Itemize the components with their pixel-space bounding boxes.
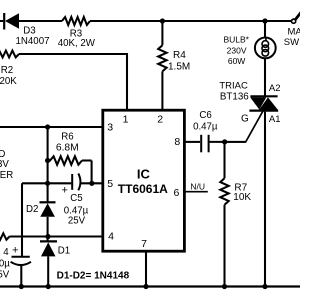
svg-text:1N4007: 1N4007: [16, 36, 50, 47]
svg-text:0µ: 0µ: [0, 259, 10, 270]
svg-text:R6: R6: [61, 132, 73, 143]
svg-text:A1: A1: [269, 114, 281, 125]
svg-text:1: 1: [123, 114, 129, 126]
svg-text:5V: 5V: [0, 270, 10, 281]
svg-text:R2: R2: [1, 65, 13, 76]
svg-text:5: 5: [107, 178, 113, 190]
svg-text:BULB*: BULB*: [223, 35, 249, 45]
svg-text:G: G: [241, 114, 249, 125]
svg-text:20K: 20K: [0, 76, 17, 87]
svg-text:+: +: [12, 245, 18, 257]
svg-text:6: 6: [173, 187, 179, 199]
svg-text:IC: IC: [137, 166, 151, 181]
svg-text:C6: C6: [199, 110, 211, 121]
svg-text:3V: 3V: [0, 159, 9, 170]
svg-text:8: 8: [174, 136, 180, 148]
svg-text:+: +: [62, 185, 68, 197]
svg-text:TRIAC: TRIAC: [219, 81, 248, 92]
svg-text:D1-D2= 1N4148: D1-D2= 1N4148: [57, 271, 130, 282]
svg-text:R4: R4: [173, 50, 186, 61]
svg-text:D2: D2: [26, 204, 38, 215]
svg-text:BT136: BT136: [220, 92, 249, 103]
svg-text:4: 4: [3, 247, 9, 258]
svg-text:60W: 60W: [228, 56, 245, 66]
svg-text:6.8M: 6.8M: [56, 143, 79, 154]
svg-text:D3: D3: [23, 26, 35, 37]
svg-text:40K, 2W: 40K, 2W: [58, 38, 96, 49]
svg-text:A2: A2: [269, 83, 281, 94]
svg-text:1.5M: 1.5M: [168, 62, 190, 73]
svg-text:ER: ER: [0, 170, 13, 181]
svg-text:D1: D1: [58, 246, 70, 257]
svg-text:TT6061A: TT6061A: [118, 182, 168, 196]
svg-text:4: 4: [108, 230, 114, 242]
svg-text:7: 7: [141, 238, 147, 250]
svg-text:SWI: SWI: [284, 37, 300, 48]
svg-text:10K: 10K: [233, 192, 251, 203]
svg-text:2: 2: [157, 114, 163, 126]
svg-text:C5: C5: [70, 193, 82, 204]
svg-text:N/U: N/U: [190, 181, 205, 191]
svg-text:25V: 25V: [68, 215, 86, 226]
svg-text:MAI: MAI: [288, 26, 301, 37]
svg-text:3: 3: [107, 122, 113, 134]
svg-text:230V: 230V: [227, 45, 247, 55]
svg-text:0.47µ: 0.47µ: [193, 121, 218, 132]
